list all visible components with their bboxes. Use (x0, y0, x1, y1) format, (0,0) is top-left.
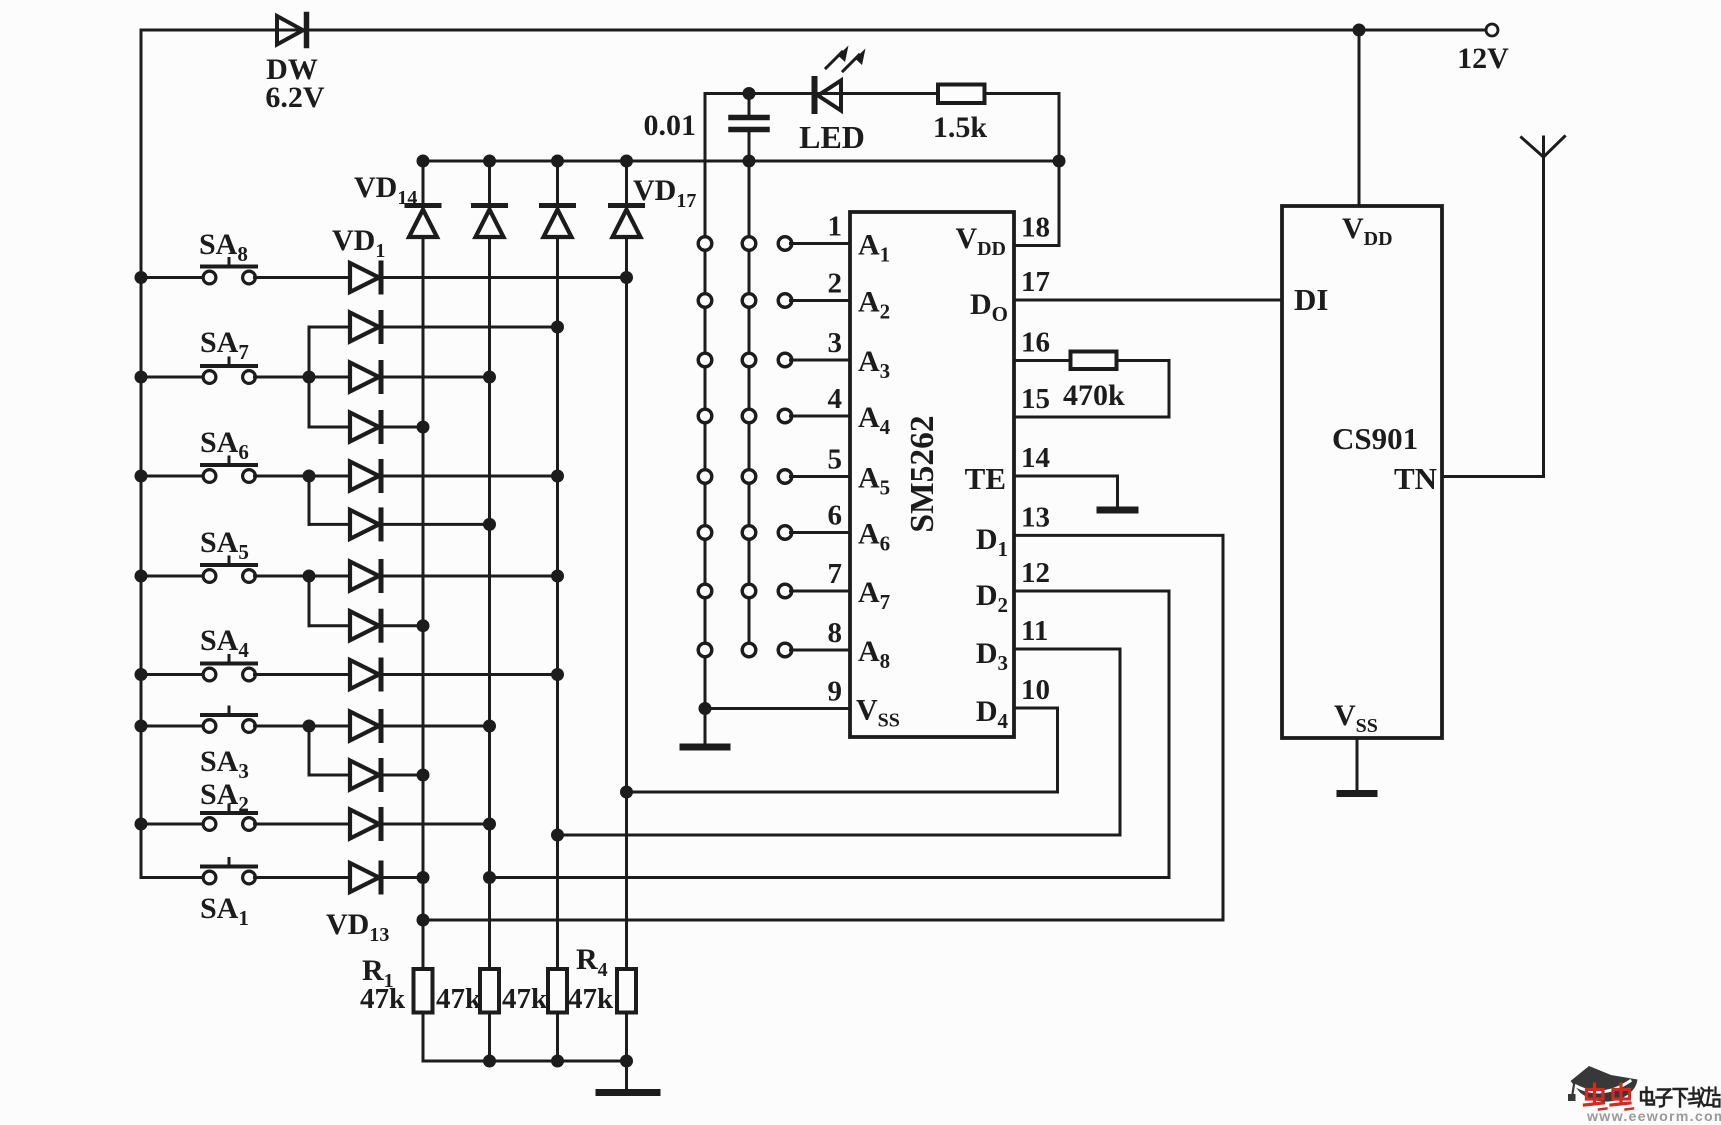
wire R2 bottom lead (488, 1013, 491, 1062)
wire VD3 cathode to column C2 with junction dot (384, 371, 497, 384)
label 47k (R2) (436, 983, 482, 1015)
label SA2 (200, 778, 249, 816)
label VSS (SM5262) (856, 694, 900, 732)
label SA5 (200, 526, 249, 564)
wire address column A (VSS side) with jumper pads (698, 94, 712, 709)
wire VD12 cathode to column C2 with junction dot (384, 818, 497, 831)
label A7 (858, 576, 890, 614)
ground symbol for VSS column (683, 709, 727, 748)
label VD14 (354, 171, 417, 209)
label SA6 (200, 426, 249, 464)
label VSS (CS901) (1334, 699, 1378, 737)
diode VD10 (350, 712, 381, 741)
wire R4 bottom lead (625, 1013, 628, 1062)
pin number 16 (1021, 327, 1050, 359)
wire column C3 (556, 237, 559, 970)
label A4 (858, 401, 891, 439)
pin 2 stub with jumper pad (A2) (778, 294, 850, 308)
capacitor 0.01 (decoupling) (731, 87, 767, 168)
svg-text:17: 17 (1021, 266, 1050, 298)
label 0.01 (644, 109, 697, 142)
label CS901 (1332, 421, 1418, 456)
diode VD4 (350, 413, 381, 442)
label 1.5k (933, 111, 988, 144)
label VD13 (326, 908, 389, 946)
watermark url www.eeworm.com (1586, 1109, 1721, 1125)
pin 3 stub with jumper pad (A3) (778, 353, 850, 367)
pin number 2 (828, 268, 843, 300)
pin number 14 (1021, 442, 1050, 474)
diode VD2 (350, 313, 381, 342)
resistor R3 47k (vertical) (548, 969, 567, 1013)
svg-text:LED: LED (799, 119, 865, 155)
diode VD7 (350, 562, 381, 591)
svg-text:4: 4 (828, 383, 843, 415)
wire VD4 cathode to column C1 with junction dot (384, 421, 430, 434)
label SA7 (200, 326, 249, 364)
label VD17 (633, 174, 696, 212)
label DI (1294, 282, 1328, 317)
label 470k (1063, 379, 1125, 412)
ground symbol CS901 VSS (1340, 738, 1374, 794)
diode VD9 (350, 660, 381, 689)
svg-text:7: 7 (828, 558, 843, 590)
label A8 (858, 635, 890, 673)
pin 1 stub with jumper pad (A1) (778, 237, 850, 251)
resistor R2 47k (vertical) (480, 969, 499, 1013)
antenna (1522, 137, 1565, 477)
IC U1 SM5262 body (850, 212, 1014, 737)
wire VD10 cathode to column C2 with junction dot (384, 720, 497, 733)
node SA5 anode branch junction (303, 570, 351, 626)
svg-text:5: 5 (828, 444, 843, 476)
pin number 5 (828, 444, 843, 476)
svg-text:3: 3 (828, 327, 843, 359)
svg-text:12V: 12V (1457, 42, 1509, 75)
wire D4 pin 10 to column C4 (620, 708, 1058, 799)
label SA8 (199, 228, 248, 266)
svg-text:1: 1 (828, 211, 843, 243)
svg-text:2: 2 (828, 268, 843, 300)
pin 4 stub with jumper pad (A4) (778, 409, 850, 423)
resistor 470k (oscillator, pins 16-15) (1014, 352, 1169, 418)
label R1 (362, 954, 394, 992)
label TE (965, 461, 1006, 496)
svg-text:47k: 47k (436, 983, 482, 1015)
svg-text:0.01: 0.01 (644, 109, 697, 142)
switch SA1 (pushbutton) with wire from rail (141, 859, 350, 884)
node SA7 anode branch junction (303, 327, 351, 427)
svg-text:www.eeworm.com: www.eeworm.com (1586, 1109, 1721, 1125)
svg-text:DI: DI (1294, 282, 1328, 317)
label A5 (858, 462, 890, 500)
pin number 1 (828, 211, 843, 243)
pin number 10 (1021, 674, 1050, 706)
svg-text:11: 11 (1021, 615, 1048, 647)
diode VD6 (350, 510, 381, 539)
pin 8 stub with jumper pad (A8) (778, 643, 850, 657)
svg-text:TE: TE (965, 461, 1006, 496)
pin number 9 (828, 676, 843, 708)
LED indicator diode (815, 46, 866, 112)
pin number 18 (1021, 212, 1050, 244)
pin number 17 (1021, 266, 1050, 298)
svg-text:1.5k: 1.5k (933, 111, 988, 144)
label VD1 (332, 224, 385, 262)
pin number 4 (828, 383, 843, 415)
label A3 (858, 345, 890, 383)
label 47k (R1) (360, 983, 406, 1015)
wire D3 pin 11 to column C3 (551, 649, 1120, 842)
node SA6 anode branch junction (303, 470, 351, 525)
label VDD (SM5262) (955, 222, 1006, 260)
diode VD1 (350, 263, 381, 292)
svg-text:15: 15 (1021, 383, 1050, 415)
label A1 (858, 229, 890, 267)
svg-text:14: 14 (1021, 442, 1050, 474)
junction dot VSS column to pin 9 wire (699, 702, 712, 715)
svg-text:9: 9 (828, 676, 843, 708)
label DW (266, 53, 318, 86)
label 47k (R4) (568, 983, 614, 1015)
wire VDD bus over diode columns (to SM5262 VDD node) (423, 160, 1059, 163)
ground symbol TE (1100, 507, 1135, 514)
pin number 11 (1021, 615, 1048, 647)
svg-text:12: 12 (1021, 557, 1050, 589)
wire VD6 cathode to column C2 with junction dot (384, 518, 497, 531)
label TN (1394, 461, 1437, 496)
wire D1 pin 13 to column C1 (417, 535, 1224, 926)
label D4 (976, 695, 1009, 733)
pin number 8 (828, 617, 843, 649)
diode VD14 (column C1 to VDD bus) (407, 155, 439, 238)
svg-text:CS901: CS901 (1332, 421, 1418, 456)
wire column C4 (625, 237, 628, 970)
wire VD8 cathode to column C1 with junction dot (384, 619, 430, 632)
pin 6 stub with jumper pad (A6) (778, 526, 850, 540)
wire VD11 cathode to column C1 with junction dot (384, 769, 430, 782)
pin 9 wire (VSS) to address column A (705, 707, 850, 710)
diode VD16 (column C3 to VDD bus) (542, 155, 574, 238)
svg-text:47k: 47k (568, 983, 614, 1015)
diode VD17 (column C4 to VDD bus) (611, 155, 643, 238)
terminal 12V (open circle) (1486, 24, 1498, 36)
switch SA8 (pushbutton) with wire from rail (135, 259, 351, 285)
wire address column B (VDD side) with jumper pads (742, 161, 756, 657)
diode VD3 (350, 363, 381, 392)
label A2 (858, 286, 890, 324)
diode VD11 (350, 761, 381, 790)
label SA3 (200, 745, 249, 783)
switch SA4 (pushbutton) with wire from rail (135, 656, 351, 682)
label R4 (576, 943, 608, 981)
label D1 (976, 523, 1008, 561)
svg-text:47k: 47k (502, 983, 548, 1015)
pin 18 stub (VDD) (1014, 244, 1059, 247)
svg-text:470k: 470k (1063, 379, 1125, 412)
node SA3 anode branch junction (303, 720, 351, 776)
wire R1 bottom lead (422, 1013, 425, 1062)
diode VD15 (column C2 to VDD bus) (474, 155, 506, 238)
pin 5 stub with jumper pad (A5) (778, 470, 850, 484)
diode VD13 (350, 863, 381, 892)
wire 12V rail to CS901 VDD (1358, 30, 1361, 206)
wire top supply rail (12V) (141, 29, 1487, 32)
switch SA2 (pushbutton) with wire from rail (135, 805, 351, 831)
switch SA5 (pushbutton) with wire from rail (135, 557, 351, 583)
watermark text dianzi xiazaizhan (drawn glyphs) (1641, 1088, 1720, 1107)
resistor R4 47k (vertical) (617, 969, 636, 1013)
wire R3 bottom lead (556, 1013, 559, 1062)
svg-text:16: 16 (1021, 327, 1050, 359)
wire VD5 cathode to column C3 with junction dot (384, 470, 565, 483)
pin number 3 (828, 327, 843, 359)
diode VD8 (350, 611, 381, 640)
label 6.2V (265, 81, 325, 114)
diode VD5 (350, 462, 381, 491)
wire VD7 cathode to column C3 with junction dot (384, 570, 565, 583)
pin number 12 (1021, 557, 1050, 589)
switch SA7 (pushbutton) with wire from rail (135, 358, 351, 384)
label D2 (976, 579, 1008, 617)
wire TN to antenna (1442, 475, 1544, 478)
wire left rail (switch common) (140, 30, 143, 878)
svg-text:47k: 47k (360, 983, 406, 1015)
switch SA3 (pushbutton) with wire from rail (135, 707, 351, 733)
label 12V (1457, 42, 1509, 75)
label LED (799, 119, 865, 155)
junction dot top rail to CS901 VDD (1353, 24, 1366, 37)
switch SA6 (pushbutton) with wire from rail (135, 457, 351, 483)
svg-text:SM5262: SM5262 (904, 415, 941, 532)
wire DO pin 17 to CS901 DI (1014, 299, 1282, 302)
zener diode DW 6.2V (277, 15, 307, 46)
resistor 1.5k (LED series) (938, 85, 985, 104)
diode VD12 (350, 810, 381, 839)
wire column C2 (488, 237, 491, 970)
label 47k (R3) (502, 983, 548, 1015)
pin 7 stub with jumper pad (A7) (778, 584, 850, 598)
wire VD13 cathode to column C1 with junction dot (384, 871, 430, 884)
label A6 (858, 518, 890, 556)
wire resistor common bottom rail (423, 1055, 633, 1068)
label VDD (CS901) (1342, 212, 1393, 250)
pin number 15 (1021, 383, 1050, 415)
wire D2 pin 12 to column C2 (483, 591, 1169, 884)
svg-text:8: 8 (828, 617, 843, 649)
module U2 CS901 body (1282, 206, 1442, 738)
label D3 (976, 637, 1008, 675)
label SM5262 (rotated) (904, 415, 941, 532)
svg-text:18: 18 (1021, 212, 1050, 244)
wire LED rail down to SM5262 VDD pin 18 (1053, 94, 1066, 246)
wire VD1 cathode to column C4 with junction dot (384, 271, 634, 284)
watermark eeworm logo (1568, 1066, 1638, 1110)
svg-text:6.2V: 6.2V (265, 81, 325, 114)
wire VD9 cathode to column C3 with junction dot (384, 668, 565, 681)
svg-text:6: 6 (828, 500, 843, 532)
svg-text:TN: TN (1394, 461, 1437, 496)
wire TE pin 14 to ground (1014, 476, 1118, 507)
svg-text:13: 13 (1021, 501, 1050, 533)
label SA1 (200, 892, 249, 930)
wire LED branch rail (top of address column) (705, 92, 1059, 95)
wire VD2 cathode to column C3 with junction dot (384, 321, 565, 334)
pin number 13 (1021, 501, 1050, 533)
pin number 6 (828, 500, 843, 532)
pin number 7 (828, 558, 843, 590)
wire column C1 (422, 237, 425, 970)
label DO (970, 288, 1008, 326)
resistor R1 47k (vertical) (414, 969, 433, 1013)
svg-text:10: 10 (1021, 674, 1050, 706)
ground symbol below resistor rail (599, 1061, 657, 1093)
label SA4 (200, 624, 249, 662)
